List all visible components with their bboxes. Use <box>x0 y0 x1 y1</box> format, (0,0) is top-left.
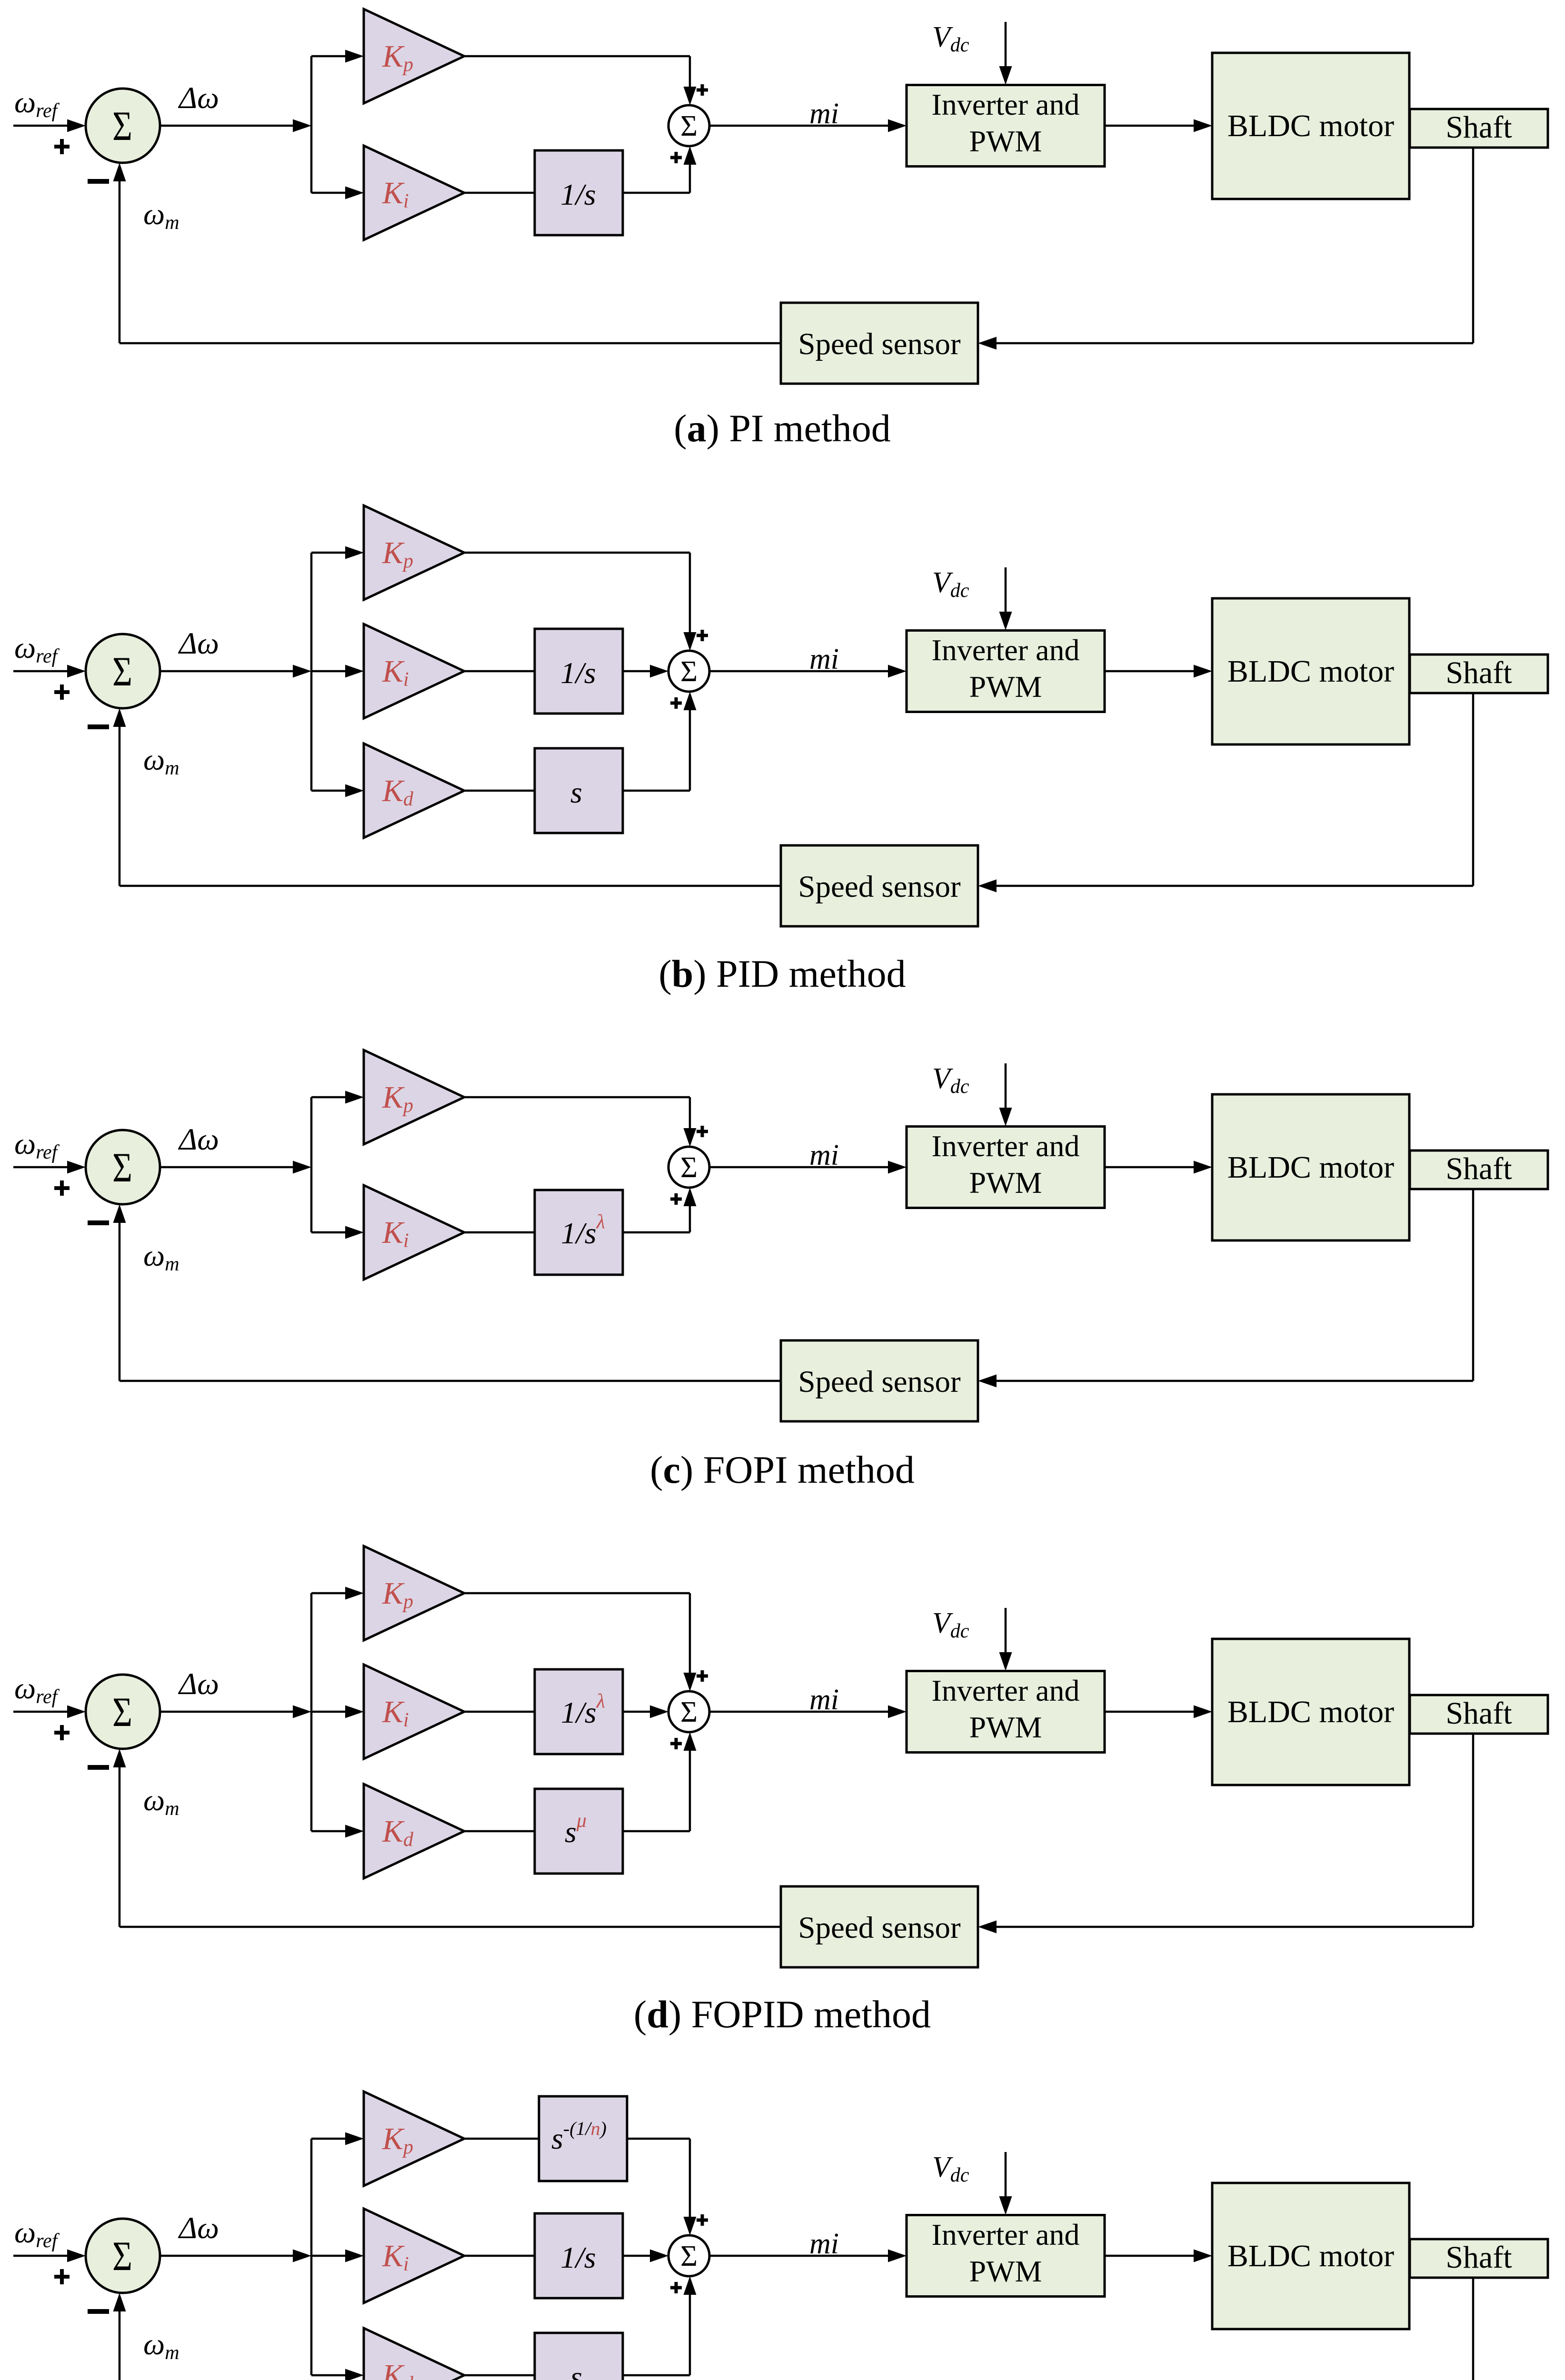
svg-text:Σ: Σ <box>112 1689 132 1735</box>
summing junction S2b <box>668 651 709 692</box>
block BLDC motor (e) <box>1212 2183 1409 2329</box>
block Inverter and PWM (e) <box>907 2215 1105 2297</box>
svg-text:Shaft: Shaft <box>1445 2240 1512 2275</box>
gain Ki triangle (b) <box>364 624 464 718</box>
summing junction S2c <box>668 1147 709 1188</box>
label minus at feedback input (d) <box>88 1765 109 1770</box>
label Ki (d) <box>382 1695 409 1731</box>
svg-text:Shaft: Shaft <box>1445 110 1512 145</box>
block Inverter and PWM (d) <box>907 1671 1105 1753</box>
wire: Kd to block (e) <box>464 2374 535 2377</box>
label omega_ref (d) <box>14 1671 60 1708</box>
svg-text:(b) PID method: (b) PID method <box>658 952 906 995</box>
label mi (d) <box>809 1684 839 1716</box>
wire: omega_ref input (a) <box>13 119 86 132</box>
gain Kp triangle (b) <box>364 506 464 600</box>
svg-text:Δω: Δω <box>178 81 219 115</box>
block 1/s^lambda (c) <box>535 1190 623 1275</box>
svg-text:BLDC motor: BLDC motor <box>1227 1695 1394 1729</box>
svg-text:Σ: Σ <box>112 649 132 695</box>
label delta-omega (a) <box>178 81 219 115</box>
wire: p-path to summer top (d) <box>464 1593 697 1691</box>
svg-text:mi: mi <box>809 1684 839 1716</box>
wire: V_dc into inverter (a) <box>999 22 1012 85</box>
block s^mu (d) <box>535 1789 623 1874</box>
label plus at input (b) <box>54 684 70 700</box>
wire: V_dc into inverter (b) <box>999 567 1012 630</box>
wire: omega_ref input (b) <box>13 665 86 678</box>
wire: inverter to BLDC motor (d) <box>1105 1706 1212 1718</box>
wire: shaft feedback drop (c) <box>1472 1189 1475 1381</box>
gain Kp triangle (c) <box>364 1050 464 1144</box>
block Shaft (c) <box>1410 1150 1548 1189</box>
block Speed sensor (b) <box>781 845 978 926</box>
wire: Ki to block (c) <box>464 1231 535 1234</box>
wire: omega_ref input (e) <box>13 2250 86 2262</box>
svg-text:Shaft: Shaft <box>1445 1151 1512 1186</box>
wire: branch vertical (c) <box>310 1097 313 1232</box>
svg-text:ωref: ωref <box>14 85 60 122</box>
label omega_ref (c) <box>14 1127 60 1163</box>
block s (e) <box>535 2333 623 2380</box>
wire: feedback to speed sensor (a) <box>978 337 1473 350</box>
block BLDC motor (d) <box>1212 1639 1409 1785</box>
svg-text:Σ: Σ <box>680 655 698 688</box>
gain Kp triangle (d) <box>364 1546 464 1640</box>
svg-text:PWM: PWM <box>969 1710 1042 1744</box>
svg-text:Σ: Σ <box>680 2240 698 2272</box>
svg-text:Vdc: Vdc <box>932 21 969 56</box>
summing junction S1c <box>86 1130 160 1204</box>
label omega_ref (e) <box>14 2215 60 2252</box>
label plus at input (c) <box>54 1180 70 1196</box>
label mi (b) <box>809 643 839 675</box>
label minus at feedback input (c) <box>88 1220 109 1225</box>
svg-text:mi: mi <box>809 98 839 130</box>
wire: d-path to summer bottom (e) <box>623 2276 697 2375</box>
wire: branch stub into Ki (d) <box>311 1706 364 1718</box>
svg-text:Inverter and: Inverter and <box>932 1129 1080 1163</box>
wire: inverter to BLDC motor (b) <box>1105 665 1212 678</box>
svg-text:Σ: Σ <box>112 1145 132 1191</box>
gain Kp triangle (a) <box>364 9 464 103</box>
caption (c) FOPI method <box>650 1448 915 1491</box>
svg-text:(a) PI method: (a) PI method <box>674 407 891 450</box>
wire: branch stub into Kp (b) <box>311 546 364 559</box>
svg-text:ωref: ωref <box>14 631 60 667</box>
wire: error signal to branch (e) <box>160 2250 311 2262</box>
gain Kd triangle (b) <box>364 744 464 838</box>
wire: p-path to summer top (b) <box>464 553 697 651</box>
svg-text:Inverter and: Inverter and <box>932 2218 1080 2251</box>
wire: i-path to summer left (d) <box>623 1706 668 1718</box>
label V_dc (a) <box>932 21 969 56</box>
label Kp (b) <box>382 535 413 572</box>
wire: Ki to block (b) <box>464 670 535 673</box>
svg-text:ωm: ωm <box>143 743 179 779</box>
wire: inverter to BLDC motor (a) <box>1105 119 1212 132</box>
wire: feedback to speed sensor (c) <box>978 1375 1473 1388</box>
wire: shaft feedback drop (d) <box>1472 1734 1475 1927</box>
svg-text:Σ: Σ <box>680 110 698 142</box>
wire: V_dc into inverter (d) <box>999 1608 1012 1671</box>
label omega_m (a) <box>143 197 179 234</box>
label delta-omega (b) <box>178 626 219 661</box>
wire: mi control signal (e) <box>709 2250 907 2262</box>
wire: feedback return (d) <box>113 1749 781 1927</box>
label omega_m (c) <box>143 1239 179 1275</box>
wire: Kd to block (b) <box>464 790 535 792</box>
label plus at summer bottom (e) <box>670 2282 682 2293</box>
svg-text:ωref: ωref <box>14 1671 60 1708</box>
gain Kp triangle (e) <box>364 2092 464 2186</box>
wire: mi control signal (c) <box>709 1161 907 1174</box>
wire: branch stub into Kp (c) <box>311 1091 364 1104</box>
label Kp (a) <box>382 39 413 76</box>
label Kd (e) <box>382 2358 414 2380</box>
wire: error signal to branch (b) <box>160 665 311 678</box>
summing junction S1b <box>86 634 160 708</box>
gain Ki triangle (d) <box>364 1665 464 1759</box>
label Ki (e) <box>382 2239 409 2275</box>
block s (b) <box>535 748 623 833</box>
svg-text:BLDC motor: BLDC motor <box>1227 1150 1394 1185</box>
svg-text:ωref: ωref <box>14 1127 60 1163</box>
svg-text:Inverter and: Inverter and <box>932 1674 1080 1707</box>
svg-text:1/s: 1/s <box>560 2241 596 2274</box>
label minus at feedback input (e) <box>88 2309 109 2314</box>
svg-text:PWM: PWM <box>969 670 1042 704</box>
label delta-omega (e) <box>178 2211 219 2245</box>
svg-text:s: s <box>570 2360 582 2380</box>
wire: mi control signal (a) <box>709 119 907 132</box>
block Inverter and PWM (c) <box>907 1127 1105 1208</box>
label plus at summer top (c) <box>697 1126 708 1137</box>
wire: branch stub into Kp (a) <box>311 50 364 63</box>
svg-text:Shaft: Shaft <box>1445 1696 1512 1731</box>
wire: feedback return (c) <box>113 1204 781 1381</box>
wire: i-path to summer left (e) <box>623 2250 668 2262</box>
label delta-omega (c) <box>178 1122 219 1157</box>
label omega_ref (a) <box>14 85 60 122</box>
svg-text:(c) FOPI method: (c) FOPI method <box>650 1448 915 1491</box>
block Speed sensor (d) <box>781 1886 978 1967</box>
wire: i-path to summer bottom (a) <box>623 146 697 193</box>
wire: branch stub into Kp (d) <box>311 1587 364 1600</box>
svg-text:Δω: Δω <box>178 626 219 661</box>
svg-text:1/s: 1/s <box>560 656 596 690</box>
label omega_m (d) <box>143 1783 179 1820</box>
wire: feedback return (a) <box>113 163 781 343</box>
wire: p-path to summer top (e) <box>627 2139 697 2235</box>
svg-text:Inverter and: Inverter and <box>932 633 1080 667</box>
wire: p-path to summer top (c) <box>464 1097 697 1147</box>
label V_dc (c) <box>932 1062 969 1098</box>
wire: V_dc into inverter (c) <box>999 1063 1012 1126</box>
wire: shaft feedback drop (a) <box>1472 148 1475 343</box>
gain Ki triangle (a) <box>364 146 464 240</box>
svg-text:mi: mi <box>809 643 839 675</box>
wire: branch stub into Kd (e) <box>311 2369 364 2380</box>
block Inverter and PWM (b) <box>907 631 1105 712</box>
label Ki (b) <box>382 654 409 691</box>
summing junction S1a <box>86 89 160 163</box>
summing junction S2a <box>668 105 709 146</box>
svg-text:Vdc: Vdc <box>932 1062 969 1098</box>
label V_dc (b) <box>932 566 969 602</box>
wire: p-path to summer top (a) <box>464 56 697 105</box>
svg-text:mi: mi <box>809 1139 839 1171</box>
wire: mi control signal (b) <box>709 665 907 678</box>
wire: branch stub into Ki (b) <box>311 665 364 678</box>
block 1/s (a) <box>535 150 623 235</box>
svg-text:(d) FOPID method: (d) FOPID method <box>634 1993 931 2036</box>
svg-text:ωm: ωm <box>143 1783 179 1820</box>
label plus at input (e) <box>54 2269 70 2284</box>
wire: branch vertical (d) <box>310 1593 313 1831</box>
wire: shaft feedback drop (b) <box>1472 693 1475 886</box>
wire: branch stub into Ki (c) <box>311 1226 364 1239</box>
svg-text:BLDC motor: BLDC motor <box>1227 2239 1394 2273</box>
wire: feedback return (b) <box>113 708 781 886</box>
label plus at summer bottom (d) <box>670 1738 682 1749</box>
svg-text:Speed sensor: Speed sensor <box>798 870 961 904</box>
wire: branch stub into Kd (b) <box>311 784 364 797</box>
gain Ki triangle (c) <box>364 1185 464 1279</box>
block 1/s (e) <box>535 2213 623 2298</box>
svg-text:Vdc: Vdc <box>932 566 969 602</box>
wire: Ki to block (a) <box>464 192 535 194</box>
label plus at summer top (e) <box>697 2214 708 2226</box>
wire: branch stub into Kd (d) <box>311 1825 364 1838</box>
caption (b) PID method <box>658 952 906 995</box>
label V_dc (d) <box>932 1607 969 1642</box>
wire: inverter to BLDC motor (e) <box>1105 2250 1212 2262</box>
gain Ki triangle (e) <box>364 2209 464 2303</box>
svg-text:PWM: PWM <box>969 2254 1042 2288</box>
block Inverter and PWM (a) <box>907 85 1105 167</box>
label Kp (d) <box>382 1576 413 1613</box>
svg-text:Shaft: Shaft <box>1445 655 1512 690</box>
wire: i-path to summer left (b) <box>623 665 668 678</box>
svg-text:mi: mi <box>809 2228 839 2260</box>
label plus at summer bottom (c) <box>670 1193 682 1205</box>
svg-text:Δω: Δω <box>178 1667 219 1701</box>
wire: error signal to branch (c) <box>160 1161 311 1174</box>
wire: i-path to summer bottom (c) <box>623 1188 697 1232</box>
svg-text:ωref: ωref <box>14 2215 60 2252</box>
wire: branch stub into Ki (e) <box>311 2250 364 2262</box>
label mi (e) <box>809 2228 839 2260</box>
svg-text:Δω: Δω <box>178 2211 219 2245</box>
label plus at summer bottom (a) <box>670 152 682 163</box>
block 1/s (b) <box>535 629 623 714</box>
label minus at feedback input (a) <box>88 179 109 184</box>
caption (a) PI method <box>674 407 891 450</box>
wire: mi control signal (d) <box>709 1706 907 1718</box>
label Ki (c) <box>382 1215 409 1252</box>
wire: shaft feedback drop (e) <box>1472 2278 1475 2380</box>
svg-text:ωm: ωm <box>143 1239 179 1275</box>
label omega_ref (b) <box>14 631 60 667</box>
svg-text:Inverter and: Inverter and <box>932 88 1080 121</box>
wire: d-path to summer bottom (b) <box>623 692 697 791</box>
block BLDC motor (a) <box>1212 53 1409 199</box>
svg-text:Σ: Σ <box>112 103 132 149</box>
block BLDC motor (c) <box>1212 1094 1409 1240</box>
wire: Kd to block (d) <box>464 1830 535 1833</box>
svg-text:Σ: Σ <box>680 1696 698 1728</box>
wire: error signal to branch (d) <box>160 1706 311 1718</box>
label plus at summer top (a) <box>697 84 708 96</box>
wire: inverter to BLDC motor (c) <box>1105 1161 1212 1174</box>
wire: branch vertical (b) <box>310 553 313 791</box>
label plus at summer top (b) <box>697 630 708 641</box>
svg-text:PWM: PWM <box>969 1166 1042 1200</box>
svg-text:Speed sensor: Speed sensor <box>798 1365 961 1399</box>
wire: Ki to block (d) <box>464 1711 535 1713</box>
label Kp (c) <box>382 1080 413 1117</box>
label plus at summer bottom (b) <box>670 697 682 709</box>
svg-text:ωm: ωm <box>143 197 179 234</box>
label omega_m (b) <box>143 743 179 779</box>
block Shaft (d) <box>1410 1695 1548 1734</box>
svg-text:Speed sensor: Speed sensor <box>798 1911 961 1945</box>
wire: feedback return (e) <box>113 2293 781 2380</box>
svg-text:Σ: Σ <box>112 2233 132 2280</box>
block 1/s^lambda (d) <box>535 1669 623 1754</box>
summing junction S1e <box>86 2219 160 2293</box>
wire: Kp to block (e) <box>464 2138 539 2140</box>
gain Kd triangle (d) <box>364 1784 464 1878</box>
label plus at summer top (d) <box>697 1670 708 1682</box>
wire: error signal to branch (a) <box>160 119 311 132</box>
label mi (a) <box>809 98 839 130</box>
block Speed sensor (a) <box>781 303 978 384</box>
svg-text:ωm: ωm <box>143 2327 179 2364</box>
label plus at input (d) <box>54 1725 70 1740</box>
svg-text:BLDC motor: BLDC motor <box>1227 109 1394 143</box>
svg-text:Speed sensor: Speed sensor <box>798 327 961 361</box>
wire: omega_ref input (d) <box>13 1706 86 1718</box>
wire: branch vertical (e) <box>310 2139 313 2375</box>
gain Kd triangle (e) <box>364 2328 464 2380</box>
block Shaft (a) <box>1410 109 1548 148</box>
summing junction S2d <box>668 1691 709 1732</box>
wire: V_dc into inverter (e) <box>999 2152 1012 2215</box>
svg-text:s: s <box>570 775 582 809</box>
label plus at input (a) <box>54 139 70 154</box>
label delta-omega (d) <box>178 1667 219 1701</box>
wire: feedback to speed sensor (b) <box>978 880 1473 892</box>
label Ki (a) <box>382 176 409 212</box>
label V_dc (e) <box>932 2151 969 2186</box>
wire: Ki to block (e) <box>464 2255 535 2257</box>
label omega_m (e) <box>143 2327 179 2364</box>
summing junction S2e <box>668 2235 709 2276</box>
block s^-(1/n) (e) <box>539 2096 627 2181</box>
block Speed sensor (c) <box>781 1340 978 1421</box>
wire: omega_ref input (c) <box>13 1161 86 1174</box>
svg-text:PWM: PWM <box>969 124 1042 158</box>
label Kd (b) <box>382 773 414 810</box>
wire: branch stub into Ki (a) <box>311 187 364 199</box>
label mi (c) <box>809 1139 839 1171</box>
wire: branch stub into Kp (e) <box>311 2132 364 2145</box>
svg-text:1/s: 1/s <box>560 178 596 211</box>
svg-text:BLDC motor: BLDC motor <box>1227 654 1394 689</box>
wire: d-path to summer bottom (d) <box>623 1732 697 1831</box>
svg-text:Σ: Σ <box>680 1151 698 1184</box>
svg-text:Vdc: Vdc <box>932 2151 969 2186</box>
label Kd (d) <box>382 1814 414 1851</box>
caption (d) FOPID method <box>634 1993 931 2036</box>
wire: branch vertical (a) <box>310 56 313 193</box>
label minus at feedback input (b) <box>88 724 109 729</box>
wire: feedback to speed sensor (d) <box>978 1921 1473 1934</box>
block Shaft (b) <box>1410 654 1548 693</box>
block BLDC motor (b) <box>1212 598 1409 744</box>
label Kp (e) <box>382 2122 413 2158</box>
block Shaft (e) <box>1410 2239 1548 2278</box>
svg-text:Vdc: Vdc <box>932 1607 969 1642</box>
summing junction S1d <box>86 1675 160 1749</box>
svg-text:Δω: Δω <box>178 1122 219 1157</box>
